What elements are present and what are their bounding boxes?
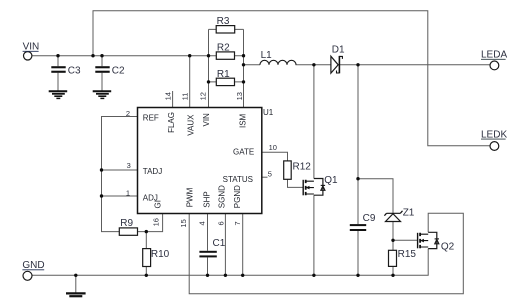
svg-text:Q1: Q1 (324, 175, 338, 186)
svg-text:Q2: Q2 (441, 242, 455, 253)
resistor R9 (119, 218, 137, 235)
svg-text:14: 14 (164, 92, 173, 100)
resistor R2 (216, 42, 234, 59)
wire ground symbol stem (75, 275, 77, 293)
capacitor C1 (199, 238, 225, 257)
wire left bus pins 2,3,1 to R9 (102, 117, 138, 232)
svg-text:FLAG: FLAG (167, 112, 176, 133)
junction pin11/rail (188, 54, 191, 57)
svg-text:U1: U1 (263, 108, 274, 117)
junction pin 3 bus (100, 168, 103, 171)
svg-text:1: 1 (126, 189, 130, 198)
wire D1 cathode to LEDA (340, 64, 490, 66)
svg-text:12: 12 (198, 92, 207, 100)
wire Q2 gate lead (393, 239, 418, 241)
wire R3 leads (209, 28, 244, 30)
svg-text:R12: R12 (293, 161, 312, 172)
junction D1 cathode / C9 (356, 63, 359, 66)
junction R1 right (242, 80, 245, 83)
resistor R10 (143, 249, 170, 267)
ground (C3) (49, 91, 67, 98)
ground (C2) (93, 91, 112, 98)
wire pin 7 to ground rail (242, 214, 244, 276)
wire ladder right / pin 13 (243, 29, 245, 107)
resistor R1 (216, 69, 234, 86)
wire R1 leads (209, 81, 244, 83)
junction pin 6 rail (224, 274, 227, 277)
svg-text:6: 6 (216, 221, 225, 225)
wire pin 11 to rail (189, 56, 191, 108)
svg-text:GATE: GATE (233, 148, 254, 157)
svg-text:Z1: Z1 (403, 207, 415, 218)
wire GND rail to Q2 source (32, 249, 428, 276)
junction Z1 tap (356, 177, 359, 180)
svg-text:10: 10 (269, 143, 277, 152)
wire R10 leads (145, 232, 147, 276)
junction C2/rail (100, 54, 103, 57)
wire C3 stem (57, 56, 59, 91)
resistor R12 (284, 161, 312, 179)
svg-text:D1: D1 (332, 44, 345, 55)
wire VIN rail (32, 55, 209, 57)
wire R2 leads (209, 55, 244, 57)
node LEDK terminal (481, 129, 507, 150)
wire C2 stem (101, 56, 103, 91)
svg-text:L1: L1 (261, 50, 273, 61)
diode D1 (schottky) (331, 44, 345, 73)
svg-text:11: 11 (181, 93, 190, 101)
svg-text:VIN: VIN (202, 113, 211, 127)
wire L1 tap to D1 anode (244, 64, 331, 66)
ground (GND rail) (66, 293, 86, 296)
junction C1 bottom (206, 274, 209, 277)
svg-text:C3: C3 (68, 65, 81, 76)
svg-text:STATUS: STATUS (223, 175, 253, 184)
wire pin 5 stub (262, 176, 268, 178)
svg-text:VAUX: VAUX (186, 114, 195, 136)
node LEDA terminal (481, 50, 507, 70)
wire R12 to Q1 gate (288, 179, 304, 187)
svg-text:16: 16 (151, 218, 160, 226)
junction R2 right (242, 54, 245, 57)
inductor L1 (260, 50, 296, 65)
svg-text:R10: R10 (151, 249, 170, 260)
svg-text:5: 5 (268, 170, 272, 179)
transistor Q2 (418, 232, 455, 252)
junction pin 1 bus (100, 194, 103, 197)
junction Q1 source rail (312, 274, 315, 277)
svg-text:2: 2 (126, 109, 130, 118)
wire R9 to pin 16 (138, 214, 163, 232)
svg-text:R15: R15 (398, 249, 417, 260)
zener Z1 (384, 207, 414, 221)
junction R10 top (145, 230, 148, 233)
wire ladder left / pin 12 (208, 29, 210, 107)
svg-text:GI: GI (154, 200, 163, 208)
wire pin 15 bottom loop to Q2 drain (189, 213, 463, 294)
wire pin 4 / C1 stem (207, 214, 209, 276)
svg-text:ISM: ISM (238, 113, 247, 128)
junction ground symbol (74, 274, 77, 277)
junction C9 rail (356, 274, 359, 277)
junction R15 rail (391, 274, 394, 277)
wire top loop to LEDK (93, 11, 490, 146)
svg-text:15: 15 (179, 219, 188, 227)
junction R1 left (207, 80, 210, 83)
svg-text:PGND: PGND (233, 185, 242, 208)
junction R2 left (207, 54, 210, 57)
svg-text:C1: C1 (213, 238, 226, 249)
junction top-loop/rail (91, 54, 94, 57)
transistor Q1 (303, 175, 338, 195)
junction L1 tap (242, 63, 245, 66)
svg-text:3: 3 (127, 161, 131, 170)
svg-text:7: 7 (233, 221, 242, 225)
junction pin 7 rail (241, 274, 244, 277)
svg-text:REF: REF (143, 113, 159, 122)
node VIN terminal (23, 42, 40, 60)
wire pin 6 to ground rail (224, 214, 226, 276)
capacitor C3 (51, 65, 81, 76)
node GND terminal (22, 260, 44, 280)
junction C3/rail (56, 54, 59, 57)
svg-text:C9: C9 (363, 213, 376, 224)
wire C9 branch (357, 65, 359, 275)
capacitor C9 (350, 213, 376, 231)
wire Q1 source to ground rail (313, 195, 315, 275)
resistor R3 (216, 16, 235, 33)
svg-text:13: 13 (235, 92, 244, 100)
svg-text:R1: R1 (217, 69, 230, 80)
svg-text:PWM: PWM (186, 187, 195, 207)
svg-text:R9: R9 (120, 218, 133, 229)
wire Z1 branch (358, 179, 393, 276)
svg-text:SGND: SGND (218, 185, 227, 208)
capacitor C2 (95, 65, 125, 76)
wire pin 10 to R12 (262, 152, 288, 161)
svg-text:R2: R2 (217, 42, 230, 53)
svg-text:R3: R3 (217, 16, 230, 27)
svg-text:C2: C2 (112, 65, 125, 76)
svg-text:TADJ: TADJ (143, 167, 162, 176)
svg-text:4: 4 (198, 221, 207, 225)
junction R10 bottom (145, 274, 148, 277)
op-amp U1 (IC body) (138, 108, 274, 214)
svg-text:SHP: SHP (202, 191, 211, 207)
wire Q1 drain (313, 65, 315, 179)
junction Q2 gate / R15 (391, 239, 394, 242)
junction Q1 drain tap (312, 63, 315, 66)
resistor R15 (389, 249, 417, 266)
wire pin 14 stub (172, 91, 174, 108)
